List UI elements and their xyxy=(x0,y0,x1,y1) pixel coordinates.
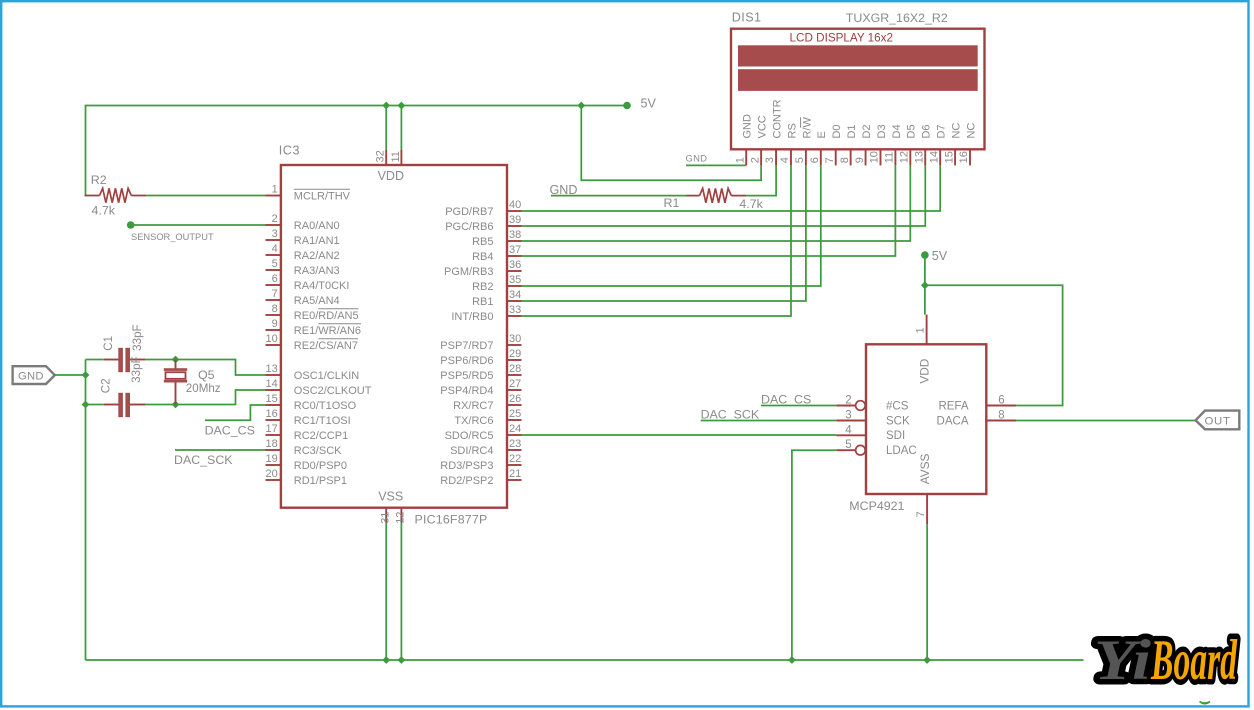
svg-text:11: 11 xyxy=(390,151,402,162)
dac IC MCP4921 xyxy=(866,344,986,494)
svg-text:1: 1 xyxy=(734,157,746,163)
svg-text:VDD: VDD xyxy=(378,169,404,183)
svg-text:R1: R1 xyxy=(664,196,680,210)
svg-text:DAC_SCK: DAC_SCK xyxy=(701,407,760,421)
junction C1 row / crystal xyxy=(172,356,180,364)
svg-text:PSP5/RD5: PSP5/RD5 xyxy=(440,370,493,382)
DIS1 pin 10 (D3) xyxy=(869,124,888,165)
wire DACA to OUT xyxy=(1016,420,1197,422)
IC3 pin 25 (TX/RC6) xyxy=(454,408,521,427)
svg-text:28: 28 xyxy=(509,363,521,375)
svg-text:RS: RS xyxy=(786,123,798,138)
svg-text:24: 24 xyxy=(509,423,521,435)
IC3 pin 14 (OSC2/CLKOUT) xyxy=(266,378,372,397)
IC3 pin 21 (RD2/PSP2) xyxy=(440,468,521,487)
svg-text:#CS: #CS xyxy=(886,400,909,412)
wire RB6 (pin39) to LCD D6 xyxy=(522,165,926,226)
svg-text:PSP6/RD6: PSP6/RD6 xyxy=(440,355,493,367)
svg-text:25: 25 xyxy=(509,408,521,420)
svg-text:DACA: DACA xyxy=(937,415,969,427)
junction 5V rail / pin32 xyxy=(382,102,390,110)
svg-text:OUT: OUT xyxy=(1205,416,1231,428)
svg-text:R2: R2 xyxy=(91,173,107,187)
svg-text:33: 33 xyxy=(509,304,521,316)
svg-text:C2: C2 xyxy=(100,378,113,393)
display DIS1 TUXGR_16X2_R2 xyxy=(731,29,985,150)
wire R2 to MCLR pin1 xyxy=(146,195,265,197)
IC3 pin 32 (VDD) xyxy=(375,150,387,165)
svg-text:20Mhz: 20Mhz xyxy=(186,382,221,395)
svg-text:PGC/RB6: PGC/RB6 xyxy=(445,221,493,233)
svg-text:5: 5 xyxy=(794,157,806,163)
svg-text:RA5/AN4: RA5/AN4 xyxy=(294,295,340,307)
junction rail / AVSS xyxy=(923,656,931,664)
svg-text:R/W: R/W xyxy=(801,117,813,139)
svg-text:D5: D5 xyxy=(906,124,918,138)
svg-text:20: 20 xyxy=(266,468,278,480)
IC3 pin 31 (VSS) xyxy=(379,508,391,524)
svg-text:AVSS: AVSS xyxy=(918,453,932,484)
IC3 pin 26 (RX/RC7) xyxy=(453,393,521,412)
svg-text:RB4: RB4 xyxy=(472,251,493,263)
svg-text:RE1/WR/AN6: RE1/WR/AN6 xyxy=(294,325,361,337)
DIS1 pin 1 (GND) xyxy=(734,114,753,165)
IC3 pin 8 (RE0/RD/AN5) xyxy=(266,303,359,322)
junction GND flag / vertical xyxy=(82,371,90,379)
svg-text:1: 1 xyxy=(272,184,278,196)
svg-text:37: 37 xyxy=(509,244,521,256)
svg-text:RA4/T0CKI: RA4/T0CKI xyxy=(294,280,350,292)
svg-text:PGD/RB7: PGD/RB7 xyxy=(445,206,493,218)
wire GND vertical to C1 xyxy=(86,359,104,361)
svg-text:5V: 5V xyxy=(932,249,948,263)
svg-text:D6: D6 xyxy=(921,124,933,138)
capacitor C1 xyxy=(104,359,119,361)
IC3 pin 28 (PSP5/RD5) xyxy=(440,363,521,382)
svg-text:D4: D4 xyxy=(891,124,903,138)
junction rail / LDAC xyxy=(788,656,796,664)
IC3 pin 11 (VDD) xyxy=(390,150,402,165)
svg-text:4.7k: 4.7k xyxy=(92,204,116,218)
IC3 pin 23 (SDI/RC4) xyxy=(450,438,521,457)
svg-text:27: 27 xyxy=(509,378,521,390)
DIS1 pin 4 (RS) xyxy=(779,123,798,165)
svg-text:D7: D7 xyxy=(936,124,948,138)
IC3 pin 22 (RD3/PSP3) xyxy=(440,453,521,472)
svg-text:33pF: 33pF xyxy=(131,324,144,350)
svg-text:D3: D3 xyxy=(876,124,888,138)
MCP4921 pin 4 (SDI) xyxy=(836,424,905,442)
wire 5V top rail xyxy=(86,106,628,196)
svg-text:22: 22 xyxy=(509,453,521,465)
IC3 pin 1 (MCLR/THV) xyxy=(266,184,351,203)
wire GND to R1 xyxy=(551,195,687,197)
svg-text:16: 16 xyxy=(266,408,278,420)
svg-text:7: 7 xyxy=(915,511,927,517)
svg-text:OSC2/CLKOUT: OSC2/CLKOUT xyxy=(294,385,372,397)
svg-text:8: 8 xyxy=(839,157,851,163)
svg-text:15: 15 xyxy=(943,151,955,163)
svg-text:2: 2 xyxy=(272,213,278,225)
svg-text:VCC: VCC xyxy=(757,115,769,138)
wire GND flag to vertical xyxy=(54,374,86,376)
svg-text:1: 1 xyxy=(915,327,927,333)
svg-text:LCD DISPLAY 16x2: LCD DISPLAY 16x2 xyxy=(790,31,894,44)
MCP4921 pin 3 (SCK) xyxy=(836,410,910,428)
DIS1 pin 8 (D1) xyxy=(839,124,858,165)
svg-text:MCP4921: MCP4921 xyxy=(849,499,904,513)
svg-text:E: E xyxy=(816,131,828,138)
wire LDAC to ground rail xyxy=(792,450,836,660)
DIS1 pin 3 (CONTR) xyxy=(764,99,783,165)
svg-text:INT/RB0: INT/RB0 xyxy=(451,311,493,323)
wire RB4 (pin37) to LCD D4 xyxy=(522,165,896,256)
IC3 pin 34 (RB1) xyxy=(472,289,521,308)
MCP4921 pin 7 (AVSS) xyxy=(915,494,927,524)
svg-text:33pF: 33pF xyxy=(130,356,143,382)
wire 5V to REFA xyxy=(925,285,1063,405)
MCP4921 pin 1 (VDD) xyxy=(915,315,927,345)
ground flag GND xyxy=(13,366,55,384)
svg-text:RC3/SCK: RC3/SCK xyxy=(294,445,342,457)
svg-text:29: 29 xyxy=(509,348,521,360)
svg-text:PSP4/RD4: PSP4/RD4 xyxy=(440,385,493,397)
IC3 pin 27 (PSP4/RD4) xyxy=(440,378,521,397)
wire RB2 (pin35) to LCD E xyxy=(522,165,821,286)
svg-text:3: 3 xyxy=(845,410,851,422)
wire 5V to MCP VDD xyxy=(924,255,926,315)
svg-text:15: 15 xyxy=(266,393,278,405)
wire GND to DIS1 pin1 xyxy=(686,164,746,166)
DIS1 pin 12 (D5) xyxy=(899,124,918,165)
svg-text:NC: NC xyxy=(965,123,977,139)
wire RB7 (pin40) to LCD D7 xyxy=(522,165,941,211)
svg-text:3: 3 xyxy=(272,228,278,240)
wire ground rail xyxy=(86,659,1084,661)
junction 5V rail / pin11 xyxy=(398,102,406,110)
DIS1 pin 14 (D7) xyxy=(928,124,947,165)
svg-text:14: 14 xyxy=(266,378,278,390)
IC3 pin 40 (PGD/RB7) xyxy=(445,199,521,218)
wire VSS pin31 to ground rail xyxy=(385,523,387,661)
svg-text:40: 40 xyxy=(509,199,521,211)
svg-text:6: 6 xyxy=(272,273,278,285)
svg-text:RA3/AN3: RA3/AN3 xyxy=(294,265,340,277)
svg-text:D2: D2 xyxy=(861,124,873,138)
svg-text:17: 17 xyxy=(266,423,278,435)
svg-text:7: 7 xyxy=(824,157,836,163)
green mark bottom right xyxy=(1200,702,1211,704)
svg-text:5: 5 xyxy=(272,258,278,270)
node 5V rail end dot xyxy=(623,102,631,110)
svg-text:DAC_CS: DAC_CS xyxy=(205,424,255,438)
IC3 pin 15 (RC0/T1OSO) xyxy=(266,393,357,412)
svg-text:RD3/PSP3: RD3/PSP3 xyxy=(440,460,493,472)
DIS1 pin 7 (D0) xyxy=(824,124,843,165)
svg-text:Q5: Q5 xyxy=(198,368,215,382)
svg-text:D1: D1 xyxy=(846,124,858,138)
svg-text:SDO/RC5: SDO/RC5 xyxy=(445,430,494,442)
svg-text:32: 32 xyxy=(375,150,387,162)
svg-text:4: 4 xyxy=(845,424,852,436)
IC3 pin 38 (RB5) xyxy=(472,229,521,248)
svg-text:5V: 5V xyxy=(641,97,657,111)
svg-text:2: 2 xyxy=(845,395,851,407)
svg-text:16: 16 xyxy=(958,151,970,163)
svg-text:RB1: RB1 xyxy=(472,296,493,308)
DIS1 pin 11 (D4) xyxy=(884,124,903,165)
wire RB5 (pin38) to LCD D5 xyxy=(522,165,911,241)
svg-text:SDI: SDI xyxy=(886,430,905,442)
svg-text:RD1/PSP1: RD1/PSP1 xyxy=(294,475,347,487)
svg-text:SCK: SCK xyxy=(886,415,910,427)
IC3 pin 29 (PSP6/RD6) xyxy=(440,348,521,367)
IC3 pin 4 (RA2/AN2) xyxy=(266,243,340,262)
svg-text:18: 18 xyxy=(266,438,278,450)
wire SDO (pin24) to DAC SDI xyxy=(522,434,837,436)
svg-text:REFA: REFA xyxy=(938,400,968,412)
svg-text:9: 9 xyxy=(272,318,278,330)
svg-text:34: 34 xyxy=(509,289,521,301)
svg-text:TX/RC6: TX/RC6 xyxy=(454,415,493,427)
svg-text:PIC16F877P: PIC16F877P xyxy=(415,513,488,527)
svg-text:RA0/AN0: RA0/AN0 xyxy=(294,220,340,232)
IC3 pin 33 (INT/RB0) xyxy=(451,304,521,323)
IC3 pin 5 (RA3/AN3) xyxy=(266,258,340,277)
DIS1 pin 9 (D2) xyxy=(854,124,873,165)
MCP4921 pin 5 (LDAC) xyxy=(836,439,916,457)
svg-text:RE2/CS/AN7: RE2/CS/AN7 xyxy=(294,340,358,352)
svg-text:OSC1/CLKIN: OSC1/CLKIN xyxy=(294,370,359,382)
svg-text:26: 26 xyxy=(509,393,521,405)
svg-text:GND: GND xyxy=(742,114,754,139)
svg-text:RC2/CCP1: RC2/CCP1 xyxy=(294,430,348,442)
svg-text:8: 8 xyxy=(272,303,278,315)
svg-text:DIS1: DIS1 xyxy=(732,11,762,25)
svg-text:CONTR: CONTR xyxy=(771,99,783,138)
IC3 pin 35 (RB2) xyxy=(472,274,521,293)
svg-text:7: 7 xyxy=(272,288,278,300)
DIS1 pin 15 (NC) xyxy=(943,123,962,166)
DIS1 pin 13 (D6) xyxy=(913,124,932,165)
IC3 pin 36 (PGM/RB3) xyxy=(444,259,522,278)
ic IC3 PIC16F877P xyxy=(281,165,507,508)
node SENSOR_OUTPUT dot xyxy=(127,221,135,229)
svg-text:NC: NC xyxy=(950,123,962,139)
wire R1 to LCD CONTR pin3 xyxy=(746,165,776,195)
IC3 pin 7 (RA5/AN4) xyxy=(266,288,340,307)
svg-text:SDI/RC4: SDI/RC4 xyxy=(450,445,493,457)
svg-text:DAC_CS: DAC_CS xyxy=(761,392,811,406)
svg-text:RA1/AN1: RA1/AN1 xyxy=(294,235,340,247)
svg-text:Yi: Yi xyxy=(1094,629,1151,692)
svg-text:IC3: IC3 xyxy=(279,144,300,158)
svg-text:23: 23 xyxy=(509,438,521,450)
IC3 pin 19 (RD0/PSP0) xyxy=(266,453,348,472)
svg-text:30: 30 xyxy=(509,333,521,345)
svg-text:RE0/RD/AN5: RE0/RD/AN5 xyxy=(294,310,359,322)
svg-text:12: 12 xyxy=(899,151,911,163)
MCP4921 pin 6 (REFA) xyxy=(938,395,1016,413)
IC3 pin 16 (RC1/T1OSI) xyxy=(266,408,351,427)
junction rail / pin12 xyxy=(398,656,406,664)
svg-text:11: 11 xyxy=(884,152,896,163)
svg-text:9: 9 xyxy=(854,157,866,163)
resistor R2 xyxy=(85,188,147,202)
junction C2 / vertical xyxy=(82,401,90,409)
wire RB1 (pin34) to LCD R/W xyxy=(522,165,806,301)
svg-text:RD0/PSP0: RD0/PSP0 xyxy=(294,460,347,472)
svg-text:4: 4 xyxy=(272,243,278,255)
svg-text:RB2: RB2 xyxy=(472,281,493,293)
svg-text:4.7k: 4.7k xyxy=(739,197,763,211)
IC3 pin 9 (RE1/WR/AN6) xyxy=(266,318,362,337)
DIS1 pin 5 (R/W) xyxy=(794,117,813,166)
svg-text:12: 12 xyxy=(395,512,407,524)
svg-text:4: 4 xyxy=(779,157,791,163)
svg-text:6: 6 xyxy=(809,157,821,163)
svg-text:GND: GND xyxy=(686,153,708,164)
svg-text:RC1/T1OSI: RC1/T1OSI xyxy=(294,415,351,427)
svg-text:VSS: VSS xyxy=(378,490,403,504)
svg-text:5: 5 xyxy=(845,439,851,451)
IC3 pin 30 (PSP7/RD7) xyxy=(440,333,521,352)
svg-text:C1: C1 xyxy=(102,336,115,351)
IC3 pin 37 (RB4) xyxy=(472,244,521,263)
MCP4921 pin 2 (#CS) xyxy=(836,395,908,413)
svg-text:RX/RC7: RX/RC7 xyxy=(453,400,493,412)
svg-text:13: 13 xyxy=(913,151,925,163)
wire AVSS pin7 to ground rail xyxy=(926,524,928,660)
svg-text:38: 38 xyxy=(509,229,521,241)
resistor R1 xyxy=(687,188,747,202)
svg-text:2: 2 xyxy=(749,157,761,163)
svg-text:RA2/AN2: RA2/AN2 xyxy=(294,250,340,262)
svg-text:RB5: RB5 xyxy=(472,236,493,248)
svg-text:3: 3 xyxy=(764,157,776,163)
svg-text:PSP7/RD7: PSP7/RD7 xyxy=(440,340,493,352)
svg-text:SENSOR_OUTPUT: SENSOR_OUTPUT xyxy=(131,232,214,242)
svg-text:DAC_SCK: DAC_SCK xyxy=(174,453,233,467)
svg-text:RC0/T1OSO: RC0/T1OSO xyxy=(294,400,357,412)
svg-text:10: 10 xyxy=(266,333,278,345)
svg-text:Board: Board xyxy=(1150,629,1237,692)
svg-text:GND: GND xyxy=(18,371,44,383)
IC3 pin 20 (RD1/PSP1) xyxy=(266,468,348,487)
svg-text:39: 39 xyxy=(509,214,521,226)
wire VDD pin 11 riser xyxy=(400,106,402,151)
wire GND left vertical xyxy=(85,360,87,661)
IC3 pin 3 (RA1/AN1) xyxy=(266,228,340,247)
DIS1 pin 6 (E) xyxy=(809,131,828,165)
svg-text:RD2/PSP2: RD2/PSP2 xyxy=(440,475,493,487)
IC3 pin 13 (OSC1/CLKIN) xyxy=(266,363,360,382)
svg-text:MCLR/THV: MCLR/THV xyxy=(294,191,351,203)
wire SENSOR_OUTPUT to RA0 pin2 xyxy=(131,224,266,226)
IC3 pin 18 (RC3/SCK) xyxy=(266,438,343,457)
node 5V dot (DAC) xyxy=(921,251,929,259)
junction 5V / REFA branch xyxy=(921,281,929,289)
DIS1 pin 16 (NC) xyxy=(958,123,977,166)
svg-text:19: 19 xyxy=(266,453,278,465)
svg-text:LDAC: LDAC xyxy=(886,445,917,457)
wire C1 to OSC1 pin13 xyxy=(145,360,266,376)
wire C2 to OSC2 pin14 xyxy=(145,390,266,405)
wire DAC_SCK to MCP pin3 xyxy=(701,420,837,422)
capacitor C2 xyxy=(104,404,119,406)
IC3 pin 17 (RC2/CCP1) xyxy=(266,423,349,442)
wire VSS pin12 to ground rail xyxy=(400,523,402,661)
DIS1 pin 2 (VCC) xyxy=(749,115,768,165)
svg-text:PGM/RB3: PGM/RB3 xyxy=(444,266,494,278)
svg-text:8: 8 xyxy=(998,410,1004,422)
svg-text:10: 10 xyxy=(869,151,881,163)
IC3 pin 12 (VSS) xyxy=(395,508,407,524)
wire DAC_SCK to RC3 pin18 xyxy=(175,449,266,451)
svg-text:VDD: VDD xyxy=(917,359,931,384)
junction C2 row / crystal xyxy=(172,401,180,409)
IC3 pin 24 (SDO/RC5) xyxy=(445,423,522,442)
svg-text:14: 14 xyxy=(928,151,940,163)
wire RB0 (pin33) to LCD RS xyxy=(522,165,792,316)
MCP4921 pin 8 (DACA) xyxy=(937,410,1016,428)
svg-text:21: 21 xyxy=(509,468,521,480)
svg-text:6: 6 xyxy=(998,395,1004,407)
svg-text:13: 13 xyxy=(266,363,278,375)
IC3 pin 6 (RA4/T0CKI) xyxy=(266,273,350,292)
wire GND vertical to C2 xyxy=(86,404,104,406)
svg-text:36: 36 xyxy=(509,259,521,271)
output flag OUT xyxy=(1196,411,1240,430)
IC3 pin 39 (PGC/RB6) xyxy=(445,214,521,233)
wire DAC_CS to RC0 pin15 xyxy=(205,405,266,420)
crystal Q5 xyxy=(175,360,177,370)
junction rail / pin31 xyxy=(382,656,390,664)
svg-text:TUXGR_16X2_R2: TUXGR_16X2_R2 xyxy=(846,11,948,25)
IC3 pin 10 (RE2/CS/AN7) xyxy=(266,333,359,352)
svg-text:D0: D0 xyxy=(831,124,843,138)
svg-text:35: 35 xyxy=(509,274,521,286)
junction 5V rail / VCC branch xyxy=(577,102,585,110)
wire VDD pin 32 riser xyxy=(385,106,387,151)
wire 5V to LCD VCC xyxy=(581,106,761,181)
wire DAC_CS to MCP pin2 xyxy=(761,405,836,407)
svg-text:31: 31 xyxy=(379,512,391,524)
IC3 pin 2 (RA0/AN0) xyxy=(266,213,340,232)
